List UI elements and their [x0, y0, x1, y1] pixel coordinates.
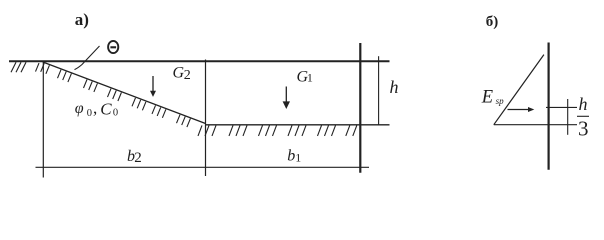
svg-text:E: E	[481, 88, 493, 108]
svg-text:2: 2	[134, 150, 142, 166]
triangle bottom line with tick	[494, 124, 577, 126]
surface hatching left	[11, 62, 26, 72]
svg-text:G: G	[173, 65, 185, 82]
svg-text:φ: φ	[75, 100, 84, 117]
left vertical line	[42, 61, 44, 178]
svg-text:h: h	[579, 94, 588, 114]
ground surface line	[9, 60, 390, 62]
svg-text:2: 2	[184, 68, 191, 83]
svg-text:C: C	[100, 100, 112, 119]
svg-text:h: h	[390, 77, 399, 97]
svg-text:1: 1	[307, 71, 313, 85]
svg-text:0: 0	[113, 108, 118, 119]
svg-text:0: 0	[87, 108, 92, 119]
top tick h/3	[546, 106, 577, 108]
label phi0, C0	[75, 99, 118, 120]
middle vertical line	[205, 60, 207, 177]
fraction h/3	[577, 94, 589, 141]
E arrow	[508, 107, 535, 112]
label G1	[297, 69, 313, 86]
theta label	[108, 41, 118, 53]
wall vertical line (right, thick)	[359, 43, 361, 173]
svg-text:б): б)	[486, 14, 499, 30]
svg-text:а): а)	[75, 10, 89, 29]
h dimension line	[378, 56, 380, 124]
bottom dimension line	[36, 166, 370, 168]
soil hatching bottom	[198, 125, 357, 135]
label b1	[287, 148, 301, 165]
theta leader line	[75, 46, 100, 70]
slope hatching	[36, 63, 191, 127]
svg-text:3: 3	[578, 117, 589, 141]
wall line (fig b)	[547, 43, 549, 170]
svg-text:b: b	[287, 148, 295, 165]
lower soil line	[206, 124, 390, 126]
slope line	[43, 62, 206, 124]
label b2	[127, 148, 142, 166]
G2 arrow	[150, 76, 156, 97]
h/3 dimension vertical	[567, 99, 569, 135]
svg-text:sp: sp	[496, 96, 505, 106]
pressure triangle hypotenuse	[494, 55, 544, 125]
label E_sp	[481, 88, 504, 108]
G1 arrow	[283, 87, 290, 110]
label G2	[173, 65, 191, 83]
svg-text:1: 1	[295, 150, 301, 164]
svg-text:,: ,	[93, 99, 97, 118]
